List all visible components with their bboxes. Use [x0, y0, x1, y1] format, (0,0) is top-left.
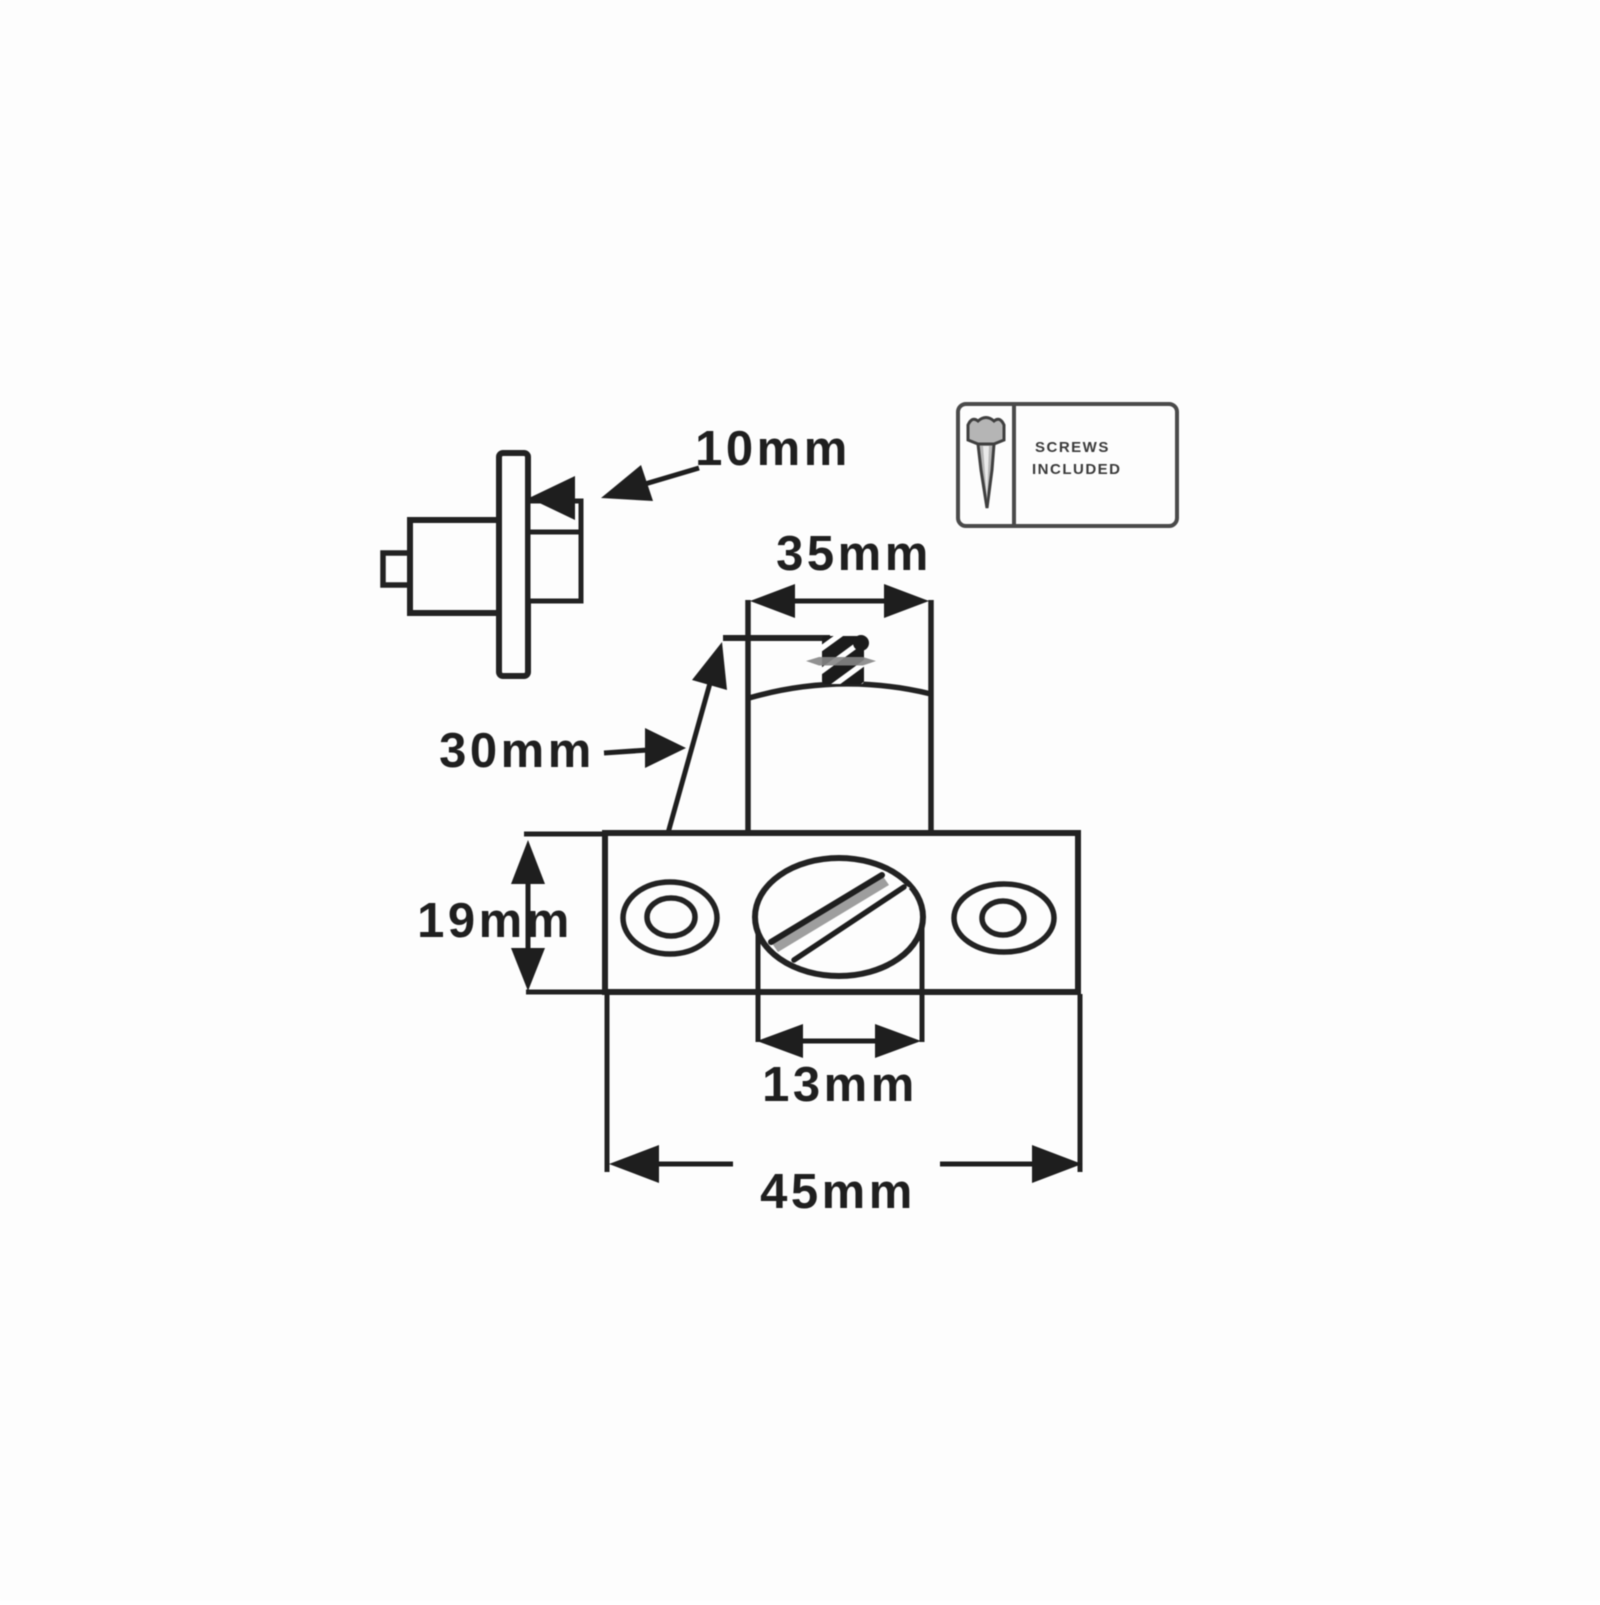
side view: barrel body: [410, 520, 499, 613]
45mm right arrowhead: [1032, 1145, 1082, 1183]
right screw hole inner: [982, 901, 1024, 935]
side view: spindle nub: [383, 553, 410, 585]
barrel dome arch: [749, 684, 931, 698]
45mm left arrowhead: [609, 1145, 659, 1183]
45mm left extension line: [605, 994, 610, 1172]
45mm right shaft: [940, 1162, 1034, 1167]
30mm slanted leader: [668, 676, 712, 833]
spring pin (gray): [806, 657, 876, 666]
45mm right extension line: [1078, 994, 1083, 1172]
19mm shaft: [526, 882, 531, 950]
13mm right arrowhead: [875, 1024, 921, 1058]
svg-text:13mm: 13mm: [762, 1058, 918, 1112]
13mm left arrowhead: [757, 1024, 803, 1058]
box divider: [1012, 406, 1016, 524]
left screw hole inner: [647, 898, 695, 936]
19mm down arrowhead: [511, 948, 545, 991]
right screw hole outer: [954, 884, 1054, 952]
arrowhead touching faceplate: [529, 476, 575, 520]
bolt top line: [723, 635, 830, 641]
19mm top extension line: [524, 832, 605, 837]
30mm pointer shaft: [604, 750, 648, 753]
arrowhead of 10mm leader: [601, 465, 653, 501]
svg-text:45mm: 45mm: [760, 1165, 916, 1219]
central bolt end ellipse: [755, 858, 923, 976]
baseplate: [605, 833, 1078, 992]
svg-text:19mm: 19mm: [417, 894, 573, 948]
left screw hole outer: [623, 882, 717, 954]
svg-text:INCLUDED: INCLUDED: [1032, 461, 1122, 478]
30mm pointer arrowhead: [645, 728, 686, 768]
screw icon: [968, 418, 1004, 509]
svg-text:SCREWS: SCREWS: [1035, 439, 1110, 456]
svg-text:10mm: 10mm: [695, 422, 851, 476]
19mm bottom extension line: [526, 990, 605, 995]
side view: faceplate (10mm thick): [499, 453, 528, 676]
dimension 35mm left arrowhead: [750, 584, 795, 618]
bolt side lines below plate: [756, 917, 761, 1042]
19mm up arrowhead: [511, 840, 545, 884]
screws included box: [958, 404, 1177, 526]
45mm left shaft: [657, 1162, 733, 1167]
13mm shaft: [801, 1039, 877, 1044]
screw slot: [768, 870, 910, 965]
svg-text:35mm: 35mm: [776, 527, 932, 581]
barrel left edge / extension: [745, 600, 751, 833]
spring top coil bulge: [853, 635, 869, 651]
leader line 10mm: [645, 468, 699, 484]
svg-text:30mm: 30mm: [439, 724, 595, 778]
dimension 35mm right arrowhead: [884, 584, 929, 618]
barrel right edge / extension: [928, 600, 934, 833]
side view: bolt housing step line: [528, 530, 581, 535]
30mm leader arrowhead: [692, 642, 727, 690]
side view: bolt housing right of faceplate: [528, 501, 581, 601]
dimension 35mm shaft: [793, 599, 886, 604]
